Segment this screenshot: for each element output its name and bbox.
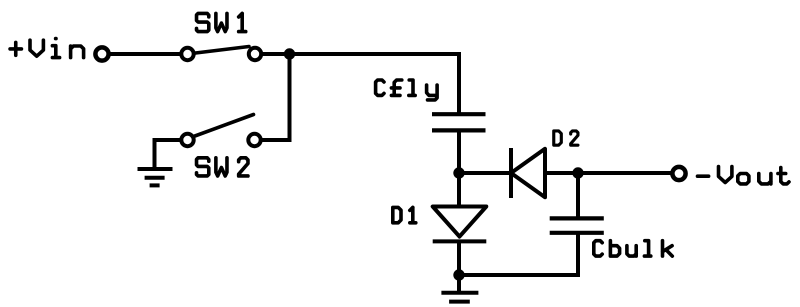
wire from Cfly bottom plate through node B to D1 anode <box>457 132 461 206</box>
label SW2 <box>197 158 248 176</box>
diode D2 (triangle and cathode bar, pointing left) <box>511 148 545 198</box>
wire down from corner to ground G1 <box>153 138 157 169</box>
label D2 <box>554 131 578 145</box>
diode D1 (triangle and cathode bar, pointing down) <box>433 207 487 242</box>
terminal -Vout (open circle) <box>672 167 685 180</box>
label +Vin <box>10 39 84 58</box>
wire from D2 anode through node C to -Vout terminal <box>544 171 671 175</box>
label D1 <box>393 207 416 222</box>
wire from Cbulk bottom plate down to bottom rail <box>576 233 580 277</box>
node B (junction dot at Cfly/D1/D2) <box>453 167 464 178</box>
label Cfly <box>376 80 438 100</box>
wire bottom rail from node D to Cbulk branch <box>459 273 580 277</box>
ground G2 (at bottom rail) <box>441 293 478 302</box>
node D (junction dot at D1/Cbulk/ground rail) <box>453 269 464 280</box>
wire from node A down to SW2 right pin level <box>288 54 292 142</box>
wire down from top-right corner to Cfly top plate <box>457 52 461 113</box>
switch SW1 (pins and blade) <box>181 47 261 61</box>
wire from SW2 right pin to vertical riser <box>259 138 292 142</box>
node A (junction dot at SW1 output) <box>284 48 295 59</box>
terminal +Vin (open circle) <box>95 47 108 60</box>
wire from node C down to Cbulk top plate <box>576 173 580 217</box>
wire from D1 cathode bar to node D <box>457 242 461 275</box>
label SW1 <box>197 13 246 31</box>
wire from SW1 right pin through node A to top-right corner <box>261 52 461 56</box>
switch SW2 (pins and blade) <box>181 115 260 147</box>
ground G1 (at SW2) <box>138 169 173 185</box>
label -Vout <box>698 167 790 184</box>
capacitor Cfly (plates) <box>432 114 486 130</box>
wire from node D down to ground G2 <box>457 275 461 291</box>
label Cbulk <box>594 241 673 256</box>
wire from node B to D2 cathode bar <box>459 171 510 175</box>
wire from +Vin terminal to SW1 left pin <box>110 52 183 56</box>
capacitor Cbulk (plates) <box>550 218 604 232</box>
wire from SW2 left pin to left corner <box>153 138 182 142</box>
node C (junction dot at D2/Cbulk/-Vout) <box>572 167 583 178</box>
